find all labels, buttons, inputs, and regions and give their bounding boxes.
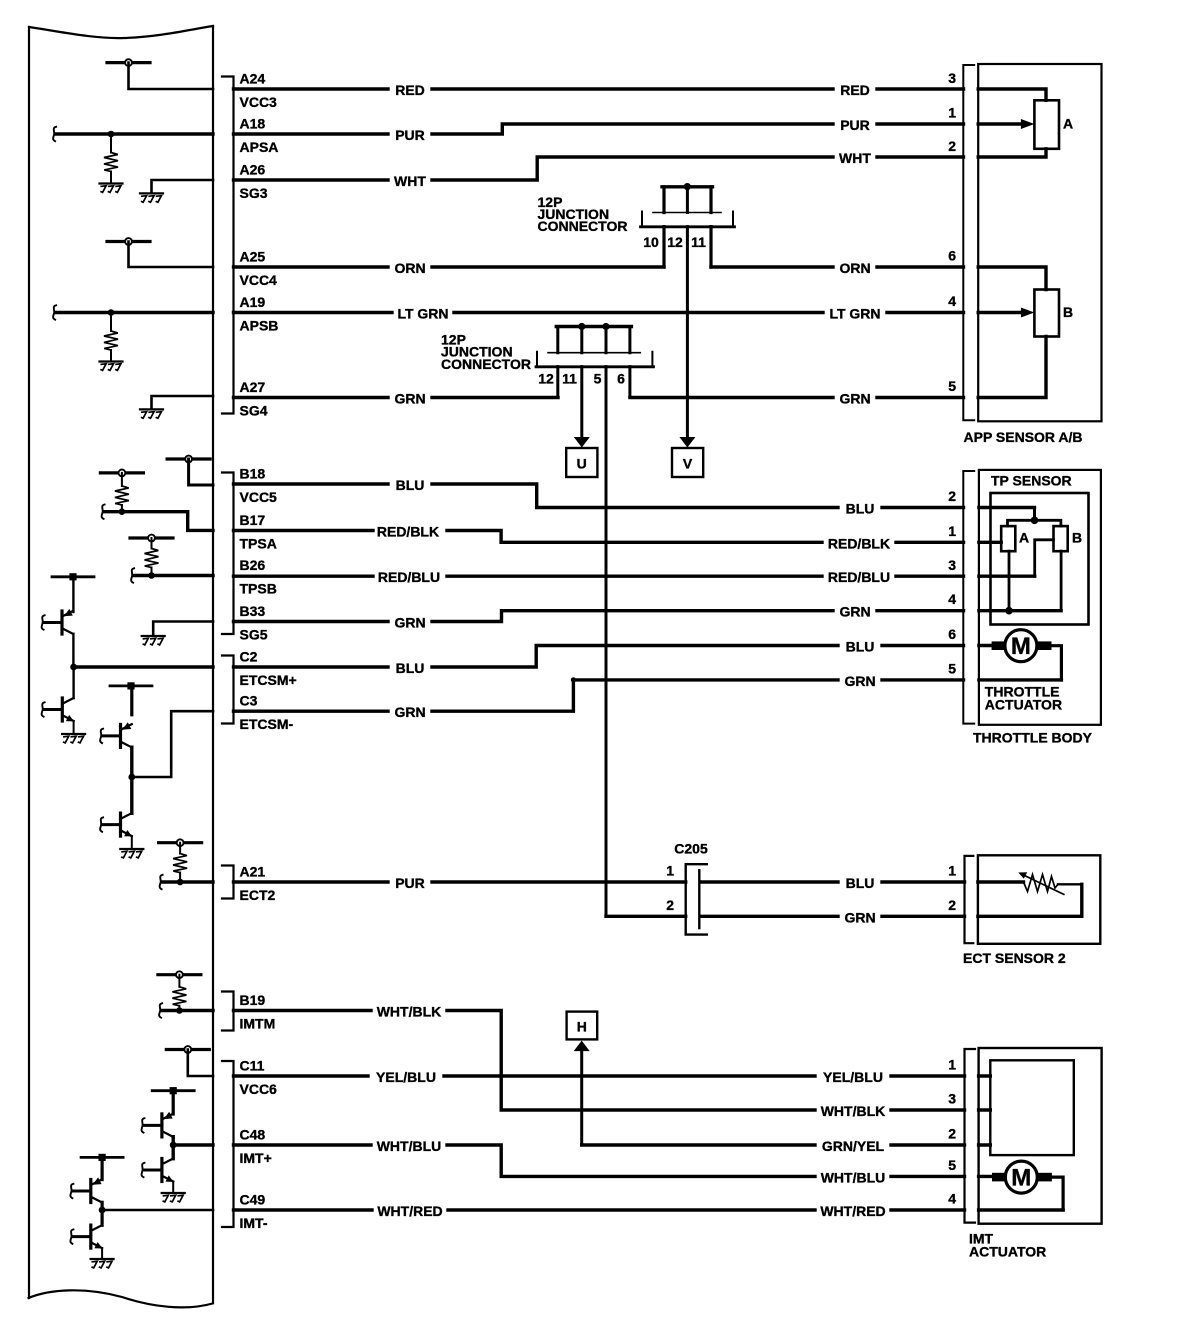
label J1 pin numbers [643, 234, 706, 250]
transistor Q6 (NPN low side) [171, 1145, 174, 1159]
svg-text:1: 1 [948, 105, 956, 121]
svg-text:A27: A27 [240, 379, 266, 395]
transistor Q2 (NPN low side) [72, 667, 74, 698]
svg-text:6: 6 [948, 626, 956, 642]
svg-text:ACTUATOR: ACTUATOR [969, 1244, 1046, 1260]
svg-text:BLU: BLU [396, 477, 425, 493]
ECM connector bracket group A (A24-SG4) [222, 77, 234, 414]
svg-text:TPSA: TPSA [240, 536, 277, 552]
svg-text:A19: A19 [240, 294, 266, 310]
wire Q7 emitter [100, 1157, 103, 1179]
node APSB pull-down junction [53, 305, 56, 319]
svg-text:4: 4 [948, 1191, 956, 1207]
node ECT2 pull-up tap [159, 839, 202, 846]
node C49 junction [99, 1207, 106, 1214]
wire VCC3 tap to A24 [129, 63, 214, 89]
wire GRN/YEL H to IMT pin 2 [582, 1143, 991, 1146]
svg-text:APSB: APSB [240, 318, 279, 334]
svg-text:10: 10 [643, 234, 659, 250]
svg-text:CONNECTOR: CONNECTOR [538, 218, 628, 234]
ECM connector bracket group B (B18-SG5) [222, 473, 234, 635]
node TP common [1031, 517, 1039, 525]
svg-text:WHT/BLK: WHT/BLK [377, 1004, 442, 1020]
svg-text:11: 11 [562, 371, 577, 387]
wire VCC4 tap to A25 [129, 242, 214, 268]
connector C205 [686, 864, 707, 934]
svg-text:VCC4: VCC4 [240, 272, 278, 288]
svg-text:WHT/BLU: WHT/BLU [821, 1169, 886, 1185]
transistor Q3 (PNP high side) [121, 722, 132, 747]
svg-text:B33: B33 [240, 603, 266, 619]
thermistor ECT [1024, 875, 1059, 892]
svg-text:12: 12 [538, 371, 554, 387]
wire J2 pin 12 leg [556, 327, 559, 398]
wire A21 internal [162, 880, 213, 883]
svg-text:VCC3: VCC3 [240, 94, 278, 110]
ECM box (torn-edge rectangle) [29, 26, 214, 1307]
svg-text:SG4: SG4 [240, 403, 268, 419]
wire TPSA internal [104, 512, 213, 531]
node C48 junction [170, 1142, 177, 1149]
thermistor arrow [1025, 876, 1064, 895]
svg-text:5: 5 [948, 378, 956, 394]
pin numbers throttle body [948, 488, 956, 677]
pin numbers C205 [666, 863, 674, 913]
wire Q3 collector to C3 node [130, 747, 133, 777]
svg-text:2: 2 [948, 138, 956, 154]
wire A27 GRN to APP pin 5 [234, 337, 1047, 398]
wire J2 pin 6 leg [628, 327, 631, 398]
node TPSB junction [148, 572, 155, 579]
wire A26 WHT to APP pin 2 [234, 149, 1047, 180]
wire Q7 collector to C49 node [100, 1202, 103, 1210]
svg-text:VCC6: VCC6 [240, 1081, 278, 1097]
wire TP pot legs to pin 4 [1009, 551, 1061, 611]
connector strip throttle body [963, 471, 974, 724]
wire J1 pin 10 leg [662, 187, 665, 267]
svg-text:C3: C3 [240, 693, 258, 709]
pin numbers IMT [948, 1057, 956, 1207]
svg-text:YEL/BLU: YEL/BLU [376, 1069, 436, 1085]
wire TP wiper B link [1035, 540, 1054, 576]
wire SG5 internal [153, 622, 213, 636]
svg-text:6: 6 [617, 371, 625, 387]
svg-text:LT GRN: LT GRN [397, 306, 448, 322]
svg-text:A21: A21 [240, 864, 266, 880]
resistor APSA pull-down [110, 134, 112, 153]
svg-text:C11: C11 [240, 1058, 265, 1074]
svg-text:V: V [683, 456, 693, 472]
throttle body box [979, 470, 1101, 725]
node TP pin 4 junction [1005, 607, 1013, 615]
svg-text:WHT: WHT [394, 173, 426, 189]
svg-text:GRN: GRN [394, 704, 425, 720]
node J1 bridge tap [684, 183, 691, 190]
svg-text:RED/BLK: RED/BLK [377, 524, 439, 540]
svg-text:TP SENSOR: TP SENSOR [991, 473, 1072, 489]
svg-text:WHT/RED: WHT/RED [377, 1203, 442, 1219]
wire APSA internal [56, 132, 214, 135]
resistor ECT2 pull-up [179, 843, 181, 854]
svg-text:GRN: GRN [394, 391, 425, 407]
svg-text:4: 4 [948, 293, 956, 309]
junction connector J1 (12P) body [642, 212, 733, 227]
wire A18 PUR to APP pin 1 [234, 124, 1021, 134]
svg-text:RED: RED [840, 82, 870, 98]
ground APSA resistor [100, 184, 123, 193]
svg-text:H: H [577, 1019, 587, 1035]
svg-text:ECT2: ECT2 [240, 887, 276, 903]
wire TPSB internal [134, 574, 214, 577]
svg-text:B: B [1072, 529, 1082, 545]
resistor IMTM pull-up [178, 975, 180, 987]
svg-text:C49: C49 [240, 1192, 266, 1208]
svg-text:RED: RED [395, 82, 425, 98]
svg-text:PUR: PUR [840, 117, 870, 133]
connector strip APP sensor [963, 65, 974, 420]
svg-text:ORN: ORN [839, 260, 870, 276]
wire A21 PUR / BLU to ECT pin 1 [234, 880, 1024, 883]
svg-text:2: 2 [666, 897, 674, 913]
IMT actuator box [979, 1048, 1102, 1224]
resistor TPSA pull-up [121, 473, 123, 486]
node TPSA pull-up tap [100, 470, 143, 477]
node C2 junction [70, 664, 77, 671]
svg-text:A25: A25 [240, 249, 266, 265]
svg-text:3: 3 [948, 70, 956, 86]
svg-text:VCC5: VCC5 [240, 489, 278, 505]
svg-text:C48: C48 [240, 1127, 266, 1143]
wire J1 pin 12 to V [686, 187, 689, 438]
label J2 12P JUNCTION CONNECTOR [441, 332, 531, 372]
svg-text:TPSB: TPSB [240, 581, 277, 597]
wire ECT GRN to ECT pin 2 [606, 915, 1082, 918]
svg-text:3: 3 [948, 557, 956, 573]
resistor APSB pull-down [110, 313, 112, 332]
svg-text:LT GRN: LT GRN [829, 306, 880, 322]
ECM connector bracket group D (A21) [222, 866, 234, 899]
svg-text:1: 1 [666, 863, 674, 879]
wire J2 pin 5 to ECT [605, 327, 608, 917]
potentiometer APP A [1034, 100, 1059, 149]
svg-text:WHT/BLU: WHT/BLU [377, 1138, 442, 1154]
ECM connector bracket group F (C11-C49) [222, 1061, 234, 1227]
wire C49 internal [102, 1209, 213, 1212]
APP wiper arrow B [1021, 308, 1035, 318]
wire A19 LT GRN to APP pin 4 [234, 311, 1021, 314]
wire J2 pin 11 to U [580, 327, 583, 438]
svg-text:GRN/YEL: GRN/YEL [822, 1138, 885, 1154]
svg-text:BLU: BLU [396, 660, 425, 676]
potentiometer APP B [1034, 290, 1059, 337]
node IMTM pull-up tap [158, 971, 201, 978]
svg-text:2: 2 [948, 1126, 956, 1142]
svg-text:4: 4 [948, 591, 956, 607]
svg-text:ORN: ORN [394, 260, 425, 276]
wire APSB internal [56, 311, 214, 314]
wire B18 BLU to TP pin 2 [234, 484, 1035, 508]
svg-text:C205: C205 [674, 841, 708, 857]
connector strip IMT actuator [965, 1049, 976, 1223]
node VCC3 tap [107, 59, 150, 66]
wire B26 RED/BLU to TP pin 3 [234, 575, 1035, 578]
svg-text:GRN: GRN [844, 673, 875, 689]
node APSA pull-down junction [53, 127, 56, 141]
wire A24 RED to APP pin 3 [234, 89, 1047, 100]
connector V arrow [679, 437, 695, 448]
svg-text:B26: B26 [240, 557, 266, 573]
node ETCSM- supply tap [110, 682, 152, 689]
node B19 junction [176, 1007, 183, 1014]
svg-text:A24: A24 [240, 71, 266, 87]
svg-text:RED/BLU: RED/BLU [828, 569, 890, 585]
svg-text:CONNECTOR: CONNECTOR [441, 356, 531, 372]
ECT sensor 2 box [978, 855, 1100, 944]
svg-text:A: A [1019, 529, 1029, 545]
svg-text:B17: B17 [240, 512, 266, 528]
potentiometer TP B [1054, 526, 1068, 551]
node VCC6 tap [166, 1046, 209, 1053]
svg-text:1: 1 [948, 1057, 956, 1073]
svg-text:GRN: GRN [839, 391, 870, 407]
svg-text:12: 12 [667, 234, 683, 250]
node VCC4 tap [107, 238, 150, 245]
ground SG4 [140, 409, 163, 418]
wire B19 WHT/BLK to IMT pin 3 [234, 1011, 991, 1111]
svg-text:B19: B19 [240, 992, 266, 1008]
svg-text:WHT/RED: WHT/RED [820, 1203, 885, 1219]
svg-text:WHT: WHT [839, 150, 871, 166]
svg-text:2: 2 [948, 488, 956, 504]
svg-text:RED/BLK: RED/BLK [828, 535, 890, 551]
potentiometer TP A [1001, 526, 1015, 551]
node VCC5 tap B18 [167, 456, 210, 463]
wire B33 GRN to TP pin 4 [234, 611, 1062, 622]
svg-text:PUR: PUR [395, 127, 425, 143]
svg-text:A18: A18 [240, 116, 266, 132]
ground APSB resistor [100, 362, 123, 371]
svg-text:A26: A26 [240, 162, 266, 178]
svg-text:BLU: BLU [846, 639, 875, 655]
motor IMT actuator [993, 1161, 1052, 1193]
svg-text:U: U [577, 456, 587, 472]
svg-text:IMT+: IMT+ [240, 1150, 272, 1166]
wire SG4 internal [152, 396, 214, 409]
svg-text:ETCSM-: ETCSM- [240, 716, 294, 732]
svg-text:BLU: BLU [846, 875, 875, 891]
wire C3 internal [132, 711, 213, 777]
svg-text:6: 6 [948, 248, 956, 264]
svg-text:2: 2 [948, 897, 956, 913]
ground SG3 [140, 193, 163, 202]
svg-text:GRN: GRN [839, 604, 870, 620]
transistor Q8 (NPN low side) [100, 1210, 103, 1225]
svg-text:B18: B18 [240, 466, 266, 482]
svg-text:ECT SENSOR 2: ECT SENSOR 2 [963, 950, 1066, 966]
wire J1 pin 11 leg [709, 187, 712, 267]
wire J2 bridge 12-11-5-6 [556, 325, 631, 328]
ECM connector bracket group C (C2-C3) [222, 656, 234, 724]
transistor Q5 (PNP high side) [162, 1112, 173, 1137]
node J2 bridge tap pin 11 [578, 323, 585, 330]
wire C2 internal [74, 665, 213, 668]
svg-text:RED/BLU: RED/BLU [378, 569, 440, 585]
node ETCSM+ supply tap [52, 573, 94, 580]
svg-text:YEL/BLU: YEL/BLU [823, 1069, 883, 1085]
wire B19 internal [162, 1009, 214, 1012]
wire A25 ORN to APP pin 6 [234, 267, 1047, 290]
svg-text:1: 1 [948, 863, 956, 879]
resistor TPSB pull-up [151, 538, 153, 549]
ground SG5 [142, 636, 165, 645]
node IMT+ supply tap [152, 1087, 194, 1094]
wire C11 YEL/BLU to IMT pin 1 [234, 1074, 991, 1077]
node J2 bridge tap pin 5 [602, 323, 609, 330]
wire C49 WHT/RED to IMT pin 4 [234, 1208, 1064, 1211]
wire C3 GRN to TP pin 5 [234, 680, 1062, 711]
node TPSA junction [119, 508, 126, 515]
wire C11 internal [188, 1050, 213, 1077]
node TPSB pull-up tap [130, 535, 173, 542]
svg-text:APSA: APSA [240, 139, 279, 155]
label J1 12P JUNCTION CONNECTOR [538, 194, 628, 234]
connector U arrow [574, 437, 590, 448]
svg-text:ETCSM+: ETCSM+ [240, 672, 297, 688]
transistor Q4 (NPN low side) [130, 777, 133, 813]
ground Q4 emitter [120, 849, 143, 858]
wire Q5 emitter [172, 1091, 175, 1114]
wire B18 internal [189, 459, 213, 485]
svg-text:3: 3 [948, 1091, 956, 1107]
pin numbers ECT [948, 863, 956, 913]
node IMT- supply tap [81, 1154, 123, 1161]
svg-text:C2: C2 [240, 649, 258, 665]
ground Q8 emitter [91, 1259, 114, 1268]
pin numbers APP [948, 70, 956, 394]
wire Q5 collector to C48 node [171, 1137, 174, 1145]
wire Q1 emitter [72, 577, 74, 612]
TP sensor inner box [991, 493, 1089, 625]
svg-text:WHT/BLK: WHT/BLK [821, 1103, 886, 1119]
svg-text:GRN: GRN [394, 615, 425, 631]
svg-text:PUR: PUR [395, 875, 425, 891]
node C3 junction [128, 774, 135, 781]
wire C48 WHT/BLU to IMT pin 5 [234, 1145, 993, 1176]
wire TP pin 2 drop [1033, 508, 1036, 521]
svg-text:SG3: SG3 [240, 185, 268, 201]
svg-text:B: B [1063, 304, 1073, 320]
wire C48 internal [173, 1143, 213, 1146]
wire ECT loop [1080, 884, 1083, 916]
label J2 pin numbers [538, 371, 625, 387]
svg-text:11: 11 [691, 234, 706, 250]
wire Q3 emitter [130, 686, 133, 715]
node C3 jog corner [571, 677, 576, 682]
IMT solenoid block [990, 1060, 1074, 1155]
svg-text:5: 5 [948, 661, 956, 677]
junction connector J2 (12P) body [537, 352, 652, 367]
svg-text:THROTTLE BODY: THROTTLE BODY [973, 730, 1093, 746]
wire Q1 collector to C2 [72, 634, 74, 667]
wire IMT motor return [1051, 1177, 1063, 1210]
svg-text:5: 5 [594, 371, 602, 387]
node A21 junction [177, 879, 184, 886]
ECM connector bracket group E (B19) [222, 992, 234, 1031]
svg-text:APP SENSOR A/B: APP SENSOR A/B [964, 429, 1083, 445]
connector strip ECT sensor [965, 856, 974, 943]
svg-text:GRN: GRN [844, 909, 875, 925]
svg-text:IMTM: IMTM [240, 1016, 276, 1032]
motor throttle actuator [992, 630, 1051, 662]
transistor Q7 (PNP high side) [91, 1177, 102, 1202]
svg-text:A: A [1063, 116, 1073, 132]
APP sensor box [978, 64, 1101, 421]
wire J1 bridge 10-12-11 [662, 185, 713, 188]
svg-text:1: 1 [948, 523, 956, 539]
wire throttle motor return [1051, 646, 1061, 680]
transistor Q1 (PNP high side) [62, 609, 73, 634]
svg-text:ACTUATOR: ACTUATOR [985, 697, 1062, 713]
svg-text:IMT-: IMT- [240, 1215, 268, 1231]
svg-text:SG5: SG5 [240, 627, 268, 643]
ground Q2 emitter [62, 734, 85, 743]
svg-text:BLU: BLU [846, 501, 875, 517]
wire C2 BLU to TP pin 6 [234, 646, 993, 668]
wire SG3 internal [152, 180, 214, 193]
APP wiper arrow A [1021, 119, 1035, 129]
ground Q6 emitter [162, 1193, 185, 1202]
connector H arrow [567, 1012, 598, 1040]
wire B17 RED/BLK to TP pin 1 [234, 531, 1002, 543]
wire TP top bar [1008, 520, 1061, 526]
svg-text:5: 5 [948, 1157, 956, 1173]
